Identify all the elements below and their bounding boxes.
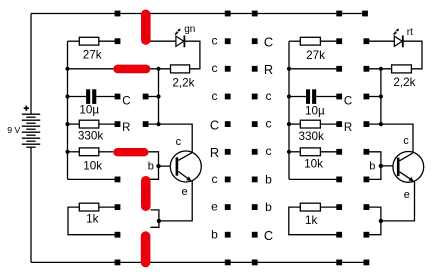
battery B1 9V: [22, 114, 40, 147]
svg-text:R: R: [264, 62, 273, 77]
node dot midR7: [252, 204, 258, 210]
svg-text:c: c: [266, 117, 272, 131]
junction right row4 column: [379, 122, 383, 126]
node dot midL2: [225, 66, 231, 72]
resistor R9 10k right: [300, 148, 320, 156]
wire jumper3 to base corner: [149, 152, 159, 180]
wire 1k top leg to node A7: [99, 206, 118, 208]
wire battery minus lead: [30, 147, 32, 262]
resistor R8 330k right: [300, 120, 320, 128]
svg-text:330k: 330k: [78, 130, 104, 143]
wire right capacitor to node A'3: [316, 96, 339, 98]
wire capacitor to node A3: [96, 96, 117, 98]
capacitor C2 10u right: [306, 89, 316, 104]
wire bracket B'5 to B'6: [366, 152, 381, 180]
node dot midL7: [225, 204, 231, 210]
svg-text:e: e: [211, 200, 218, 214]
wire right row6 rail to node A'6: [289, 178, 339, 180]
svg-text:1k: 1k: [86, 212, 99, 225]
node dot B'4: [364, 121, 370, 127]
svg-text:c: c: [403, 135, 409, 147]
node dot B'6: [364, 177, 370, 183]
junction rail row3: [65, 94, 69, 98]
wire right row1 rail to 27k: [289, 40, 300, 42]
node dot top midL: [225, 11, 231, 17]
node dot A4: [115, 121, 121, 127]
node dot midL6: [225, 177, 231, 183]
node dot bottom B': [364, 260, 370, 266]
wire right 27k to node A'1: [320, 40, 339, 42]
node dot A6: [115, 177, 121, 183]
svg-text:b: b: [265, 200, 272, 214]
node dot midR8: [252, 232, 258, 238]
wire bottom rail: [31, 261, 367, 263]
wire emitter Q1 down and left: [159, 181, 192, 221]
node dot midL4: [225, 121, 231, 127]
svg-text:rt: rt: [407, 27, 413, 38]
node dot A'7: [336, 204, 342, 210]
wire 330k to node A4: [99, 123, 118, 125]
node dot A'3: [336, 94, 342, 100]
wire row5 rail to 10k: [68, 151, 80, 153]
wire row3 rail to capacitor: [68, 96, 87, 98]
svg-text:2,2k: 2,2k: [393, 76, 415, 89]
wire node B'1 to LED rt anode: [366, 40, 394, 42]
node dot bottom midR: [252, 260, 258, 266]
jumper red horizontal row5: [113, 148, 148, 156]
junction right rail row5: [287, 150, 291, 154]
svg-text:2,2k: 2,2k: [172, 77, 194, 90]
junction 2.2k right: [379, 67, 383, 71]
wire node B'4 to collector corner Q2: [366, 124, 413, 153]
junction right rail row4: [287, 122, 291, 126]
wire right junction column: [380, 69, 382, 124]
junction rail row5: [65, 150, 69, 154]
wire right 1k left bracket to node A'8: [289, 207, 339, 235]
wire right 1k top leg to node A'7: [320, 206, 339, 208]
wire 1k left bracket to node A8: [68, 207, 118, 235]
wire LED rt cathode to corner: [403, 41, 422, 69]
wire node B'2 to 2.2k left: [366, 68, 391, 70]
svg-text:10µ: 10µ: [305, 105, 325, 118]
junction emitter Q1: [157, 219, 161, 223]
node dot A'8: [336, 232, 342, 238]
node dot midL5: [225, 149, 231, 155]
wire emitter Q2 down and left: [381, 181, 415, 221]
node dot top B': [362, 11, 368, 17]
wire row2 rail to 2.2k left: [68, 68, 171, 70]
wire right row2 rail to node A'2: [289, 68, 339, 70]
junction 2.2k left: [156, 67, 160, 71]
wire base Q1: [159, 165, 176, 167]
node dot midR2: [252, 66, 258, 72]
node dot B4: [143, 121, 149, 127]
svg-text:330k: 330k: [299, 130, 325, 143]
svg-text:R: R: [210, 145, 219, 160]
wire right row3 rail to capacitor: [289, 96, 306, 98]
svg-text:27k: 27k: [83, 49, 102, 62]
transistor Q1: [170, 151, 201, 182]
svg-text:c: c: [266, 89, 272, 103]
svg-text:1k: 1k: [305, 214, 318, 227]
junction base Q1: [156, 164, 160, 168]
svg-text:c: c: [212, 172, 218, 186]
wire top rail: [31, 13, 366, 15]
svg-text:e: e: [404, 189, 410, 201]
svg-text:10k: 10k: [304, 158, 323, 171]
junction base Q2: [379, 164, 383, 168]
node dot bottom A: [115, 260, 121, 266]
jumper red horizontal row2: [113, 65, 150, 74]
junction dots round: [65, 67, 383, 223]
resistor R2 2.2k: [171, 65, 190, 73]
svg-text:9 V: 9 V: [7, 125, 20, 135]
svg-text:C: C: [344, 95, 352, 107]
node dot midL1: [225, 38, 231, 44]
svg-text:27k: 27k: [306, 49, 325, 62]
svg-text:C: C: [122, 95, 130, 107]
svg-text:c: c: [212, 34, 218, 48]
svg-text:R: R: [122, 122, 130, 134]
node dot B3: [143, 94, 149, 100]
svg-text:C: C: [210, 117, 219, 132]
jumper red vertical rows6-7: [141, 176, 151, 211]
capacitor C1 10u: [86, 89, 96, 104]
resistor R1 27k: [79, 37, 99, 45]
junction emitter Q2: [379, 219, 383, 223]
LED D2 red: [394, 29, 403, 48]
node dot midR3: [252, 94, 258, 100]
node dot midL8: [225, 232, 231, 238]
svg-text:C: C: [264, 228, 273, 243]
LED D1 green: [175, 29, 184, 48]
svg-text:e: e: [181, 186, 187, 198]
resistor R7 2.2k right: [392, 65, 412, 73]
node dot top A': [336, 11, 342, 17]
wire row1 left to 27k: [68, 40, 80, 42]
junction rail row2: [65, 67, 69, 71]
wire right vertical rail: [288, 41, 290, 179]
node dot B'7: [364, 204, 370, 210]
node dot B'5: [364, 149, 370, 155]
svg-text:C: C: [264, 34, 273, 49]
jumper red vertical top: [141, 10, 151, 45]
wire 27k to node A1: [99, 40, 118, 42]
wire left junction column: [158, 69, 160, 124]
resistor R3 330k: [79, 120, 99, 128]
wire row6 rail to node A6: [68, 178, 118, 180]
node dot bottom midL: [225, 260, 231, 266]
svg-text:10k: 10k: [83, 160, 102, 173]
node dot B'1: [364, 38, 370, 44]
node dot top A: [115, 11, 121, 17]
svg-text:b: b: [265, 172, 272, 186]
junction right rail row2: [287, 67, 291, 71]
transistor Q2: [393, 152, 424, 183]
wire base Q2: [381, 165, 397, 167]
node dot A'4: [336, 121, 342, 127]
wire right 10k to node A'5: [320, 151, 339, 153]
junction row4 left column: [156, 122, 160, 126]
node dot top midR: [252, 11, 258, 17]
svg-text:b: b: [369, 161, 375, 173]
svg-text:b: b: [148, 161, 154, 173]
node dot B'8: [364, 232, 370, 238]
wire battery plus lead: [30, 14, 32, 115]
battery plus sign: [24, 106, 29, 111]
node dot midR5: [252, 149, 258, 155]
svg-text:b: b: [211, 228, 218, 242]
node dot B'3: [364, 94, 370, 100]
wire left vertical rail: [67, 41, 69, 179]
junction rail row4: [65, 122, 69, 126]
wire jumper1 to LED gn anode: [148, 40, 176, 42]
svg-text:c: c: [266, 144, 272, 158]
svg-text:R: R: [344, 122, 352, 134]
node dot bottom A': [336, 260, 342, 266]
wire node B'3 to junction column: [366, 96, 381, 98]
junction right rail row3: [287, 94, 291, 98]
node dot A'6: [336, 177, 342, 183]
junction right row3 column: [379, 94, 383, 98]
node dot midL3: [225, 94, 231, 100]
svg-text:gn: gn: [184, 24, 195, 35]
node dot A1: [115, 38, 121, 44]
wire 10k to jumper3: [99, 151, 114, 153]
node dot A3: [115, 94, 121, 100]
node dot A'5: [336, 149, 342, 155]
junction row3 left column: [156, 94, 160, 98]
resistor R5 1k: [79, 203, 99, 211]
middle letters left column: [210, 34, 219, 242]
node dot midR6: [252, 177, 258, 183]
node dot B'2: [364, 66, 370, 72]
node dot A'1: [336, 38, 342, 44]
svg-text:c: c: [212, 89, 218, 103]
wire node B3 to junction column: [146, 96, 159, 98]
node dot A'2: [336, 66, 342, 72]
resistor R4 10k: [79, 148, 99, 156]
wire bracket B'7 to B'8: [366, 207, 381, 235]
svg-text:c: c: [176, 136, 182, 148]
wire LED gn cathode to corner: [184, 41, 200, 69]
node dot A7: [115, 204, 121, 210]
wire right row4 rail to 330k: [289, 123, 300, 125]
node dot midR4: [252, 121, 258, 127]
node dot A8: [115, 232, 121, 238]
wire right row5 rail to 10k: [289, 151, 300, 153]
wire right 330k to node A'4: [320, 123, 339, 125]
breadboard hole dots: [115, 11, 370, 266]
wire node B4 to collector corner: [146, 124, 193, 153]
middle letters right column: [264, 34, 273, 243]
node dot midR1: [252, 38, 258, 44]
svg-text:c: c: [212, 61, 218, 75]
resistor R10 1k right: [300, 203, 320, 211]
jumper red vertical row8-bottom: [141, 231, 151, 267]
svg-text:10µ: 10µ: [79, 104, 99, 117]
wire emitter node to jumper4 bottom: [151, 210, 159, 221]
wire row4 rail to 330k: [68, 123, 80, 125]
resistor R6 27k right: [300, 37, 320, 45]
wire emitter node to jumper5 top: [150, 221, 159, 227]
